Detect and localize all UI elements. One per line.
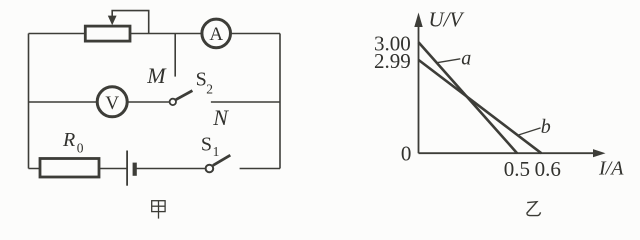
battery long plate bbox=[126, 151, 128, 186]
label S2 bbox=[196, 69, 213, 97]
line b bbox=[419, 60, 542, 153]
svg-text:S: S bbox=[196, 69, 207, 91]
svg-text:I/A: I/A bbox=[598, 158, 624, 180]
rheostat R (slide rheostat rectangle) bbox=[85, 26, 130, 41]
label jia (figure 1 caption) bbox=[152, 201, 165, 219]
rheostat wiper arrow bbox=[108, 11, 149, 34]
svg-text:1: 1 bbox=[213, 144, 220, 159]
wire bottom left bbox=[29, 168, 128, 170]
svg-text:0: 0 bbox=[77, 141, 84, 156]
svg-text:a: a bbox=[461, 47, 471, 69]
svg-text:V: V bbox=[105, 93, 119, 114]
wire S1 to right edge bbox=[240, 168, 280, 170]
svg-text:0.6: 0.6 bbox=[535, 157, 561, 181]
label R0 bbox=[62, 129, 84, 156]
label yi (figure 2 caption) bbox=[527, 202, 541, 216]
svg-text:b: b bbox=[541, 116, 551, 138]
svg-text:0: 0 bbox=[401, 142, 412, 166]
wire middle (voltmeter branch) bbox=[29, 101, 170, 103]
battery short plate bbox=[133, 163, 137, 176]
wire top bbox=[29, 33, 281, 35]
graph x-axis I/A bbox=[419, 149, 606, 157]
label S1 bbox=[201, 134, 219, 159]
wire left edge bbox=[28, 34, 30, 169]
svg-text:N: N bbox=[212, 105, 229, 130]
wire battery to S1 bbox=[135, 168, 205, 170]
svg-text:U/V: U/V bbox=[429, 7, 465, 31]
leader to line b bbox=[519, 128, 541, 135]
line a bbox=[419, 42, 518, 153]
switch S1 lever bbox=[213, 155, 230, 165]
svg-text:S: S bbox=[201, 134, 212, 156]
svg-text:2.99: 2.99 bbox=[374, 49, 411, 73]
leader to line a bbox=[437, 59, 460, 63]
graph y-axis U/V bbox=[414, 13, 422, 154]
switch S2 pivot bbox=[170, 99, 176, 105]
svg-text:A: A bbox=[209, 24, 223, 45]
switch S1 pivot bbox=[206, 165, 214, 173]
wire N to right edge bbox=[211, 101, 280, 103]
ammeter A bbox=[202, 19, 231, 48]
svg-text:0.5: 0.5 bbox=[504, 157, 530, 181]
voltmeter V bbox=[97, 87, 127, 117]
svg-text:2: 2 bbox=[206, 81, 213, 96]
svg-text:M: M bbox=[146, 63, 167, 88]
switch S2 lever bbox=[176, 91, 193, 100]
resistor R0 bbox=[40, 159, 99, 178]
wire right edge bbox=[279, 34, 281, 169]
svg-text:R: R bbox=[62, 129, 75, 151]
wire M branch bbox=[174, 34, 176, 77]
